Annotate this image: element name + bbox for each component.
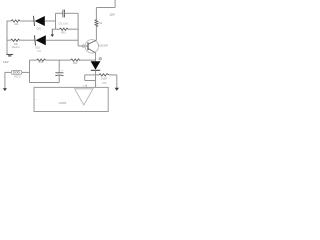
speaker faint text row1	[35, 94, 48, 96]
wire mic right	[22, 71, 30, 73]
ground drop right	[115, 75, 119, 91]
speaker plus label	[83, 84, 85, 87]
resistor R1	[11, 20, 20, 26]
cap stub upper	[58, 60, 60, 73]
label 12V left	[3, 60, 9, 64]
supply top wire	[96, 7, 115, 9]
speaker box	[34, 87, 108, 111]
svg-text:12V: 12V	[3, 60, 9, 64]
svg-text:R05: R05	[102, 83, 107, 85]
svg-text:D01: D01	[37, 27, 42, 30]
svg-text:1k2: 1k2	[37, 51, 41, 53]
right rail x78	[77, 13, 79, 46]
diode D2	[35, 35, 46, 53]
resistor R2	[11, 39, 20, 49]
collector rail	[95, 8, 97, 41]
wire cap branch right	[65, 12, 79, 14]
resistor R7	[71, 59, 80, 65]
wire R2 to D2	[20, 39, 35, 41]
wire R6 to junction	[46, 59, 71, 61]
svg-text:Tr BC547: Tr BC547	[98, 45, 109, 48]
svg-text:C01 100n: C01 100n	[58, 23, 69, 25]
svg-text:R03: R03	[61, 32, 66, 35]
ground drop left	[3, 72, 7, 91]
bottom return wire	[30, 82, 60, 84]
svg-text:. . . . . . . . . . . .: . . . . . . . . . . . .	[35, 94, 48, 96]
base wire	[78, 45, 82, 47]
speaker cone triangle	[75, 89, 93, 105]
speaker label	[59, 102, 67, 105]
svg-text:+: +	[61, 70, 63, 73]
resistor R6	[37, 59, 46, 64]
wire R1 to D1	[20, 20, 34, 22]
svg-text:LM386: LM386	[59, 102, 67, 105]
svg-text:D02: D02	[35, 46, 40, 49]
emitter rail lower	[95, 70, 97, 87]
node marker emitter	[99, 58, 101, 60]
battery B1	[6, 54, 13, 56]
loop wire right	[85, 80, 96, 82]
svg-text:R02: R02	[73, 62, 78, 65]
wire mic row left	[30, 59, 37, 61]
speaker faint text row2	[34, 99, 43, 101]
svg-text:12V: 12V	[109, 13, 115, 17]
wire marker to base	[85, 45, 88, 47]
capacitor C2	[55, 70, 63, 76]
mic riser	[29, 60, 31, 83]
wire R5 to ground corner	[109, 74, 117, 76]
wire mic left	[5, 71, 11, 73]
svg-text:100R: 100R	[101, 78, 107, 81]
resistor R5	[99, 74, 109, 86]
svg-text:10k: 10k	[14, 22, 19, 26]
svg-text:10k: 10k	[98, 22, 103, 25]
svg-text:m ... ... ..: m ... ... ..	[34, 99, 43, 101]
left rail	[6, 21, 8, 41]
resistor R3	[60, 28, 69, 34]
wire mic row to emitter rail	[79, 59, 96, 61]
transistor Q1	[85, 40, 109, 53]
wire emitter node left	[85, 74, 99, 76]
microphone MIC1	[11, 71, 21, 79]
resistor R4	[95, 20, 103, 27]
svg-text:MIC01: MIC01	[14, 76, 21, 78]
wire row2 left stub	[7, 39, 11, 41]
ground arrow mid	[51, 29, 54, 37]
node rail x55.5	[55, 13, 57, 29]
wire row1 left stub	[7, 20, 11, 22]
wire D2 to right rail	[46, 39, 79, 41]
loop wire down	[84, 75, 86, 81]
node marker base	[82, 45, 84, 47]
wire cap branch left	[56, 12, 63, 14]
diode D3	[91, 61, 101, 70]
svg-text:R01: R01	[39, 61, 44, 64]
cap stub lower	[58, 75, 60, 82]
wire resistor branch right	[68, 28, 79, 30]
capacitor C1	[58, 10, 69, 26]
label 12V right	[109, 13, 115, 17]
svg-text:10kohm: 10kohm	[12, 46, 21, 49]
emitter rail	[95, 53, 97, 62]
supply riser	[114, 0, 116, 8]
battery rail	[6, 40, 8, 54]
wire resistor branch left	[52, 28, 60, 30]
speaker pin stub	[85, 85, 87, 88]
wire D1 to node rail	[45, 20, 56, 22]
diode D1	[34, 16, 45, 30]
